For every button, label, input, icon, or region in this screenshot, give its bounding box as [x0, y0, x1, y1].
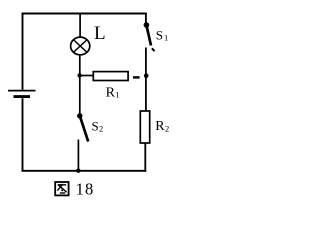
- battery: [8, 91, 36, 97]
- svg-text:R1: R1: [106, 86, 120, 101]
- wire lamp branch middle: [79, 56, 81, 114]
- wire lamp branch lower: [77, 140, 79, 171]
- wire right upper: [145, 13, 147, 23]
- svg-text:18: 18: [76, 180, 95, 199]
- switch S1: [144, 22, 155, 51]
- node junction right / R1: [144, 73, 149, 78]
- svg-text:S1: S1: [156, 27, 168, 42]
- node junction lamp branch / R1: [77, 73, 81, 77]
- caption glyph 图: [55, 182, 68, 195]
- lamp L: [71, 37, 90, 55]
- node junction bottom: [76, 169, 80, 173]
- wire left lower: [22, 98, 24, 171]
- wire bottom: [22, 170, 147, 172]
- svg-text:R2: R2: [155, 119, 169, 134]
- switch S2: [77, 113, 88, 141]
- resistor R1: [93, 72, 128, 81]
- wire R1 left: [80, 75, 94, 77]
- wire lamp branch top: [79, 13, 81, 37]
- svg-text:L: L: [94, 23, 106, 44]
- wire R1 right dash: [133, 76, 140, 78]
- wire right lower: [144, 143, 146, 172]
- svg-text:S2: S2: [92, 118, 104, 133]
- wire right middle: [145, 48, 147, 112]
- wire left upper (battery branch): [22, 13, 24, 90]
- wire top: [22, 13, 147, 15]
- resistor R2: [140, 111, 149, 143]
